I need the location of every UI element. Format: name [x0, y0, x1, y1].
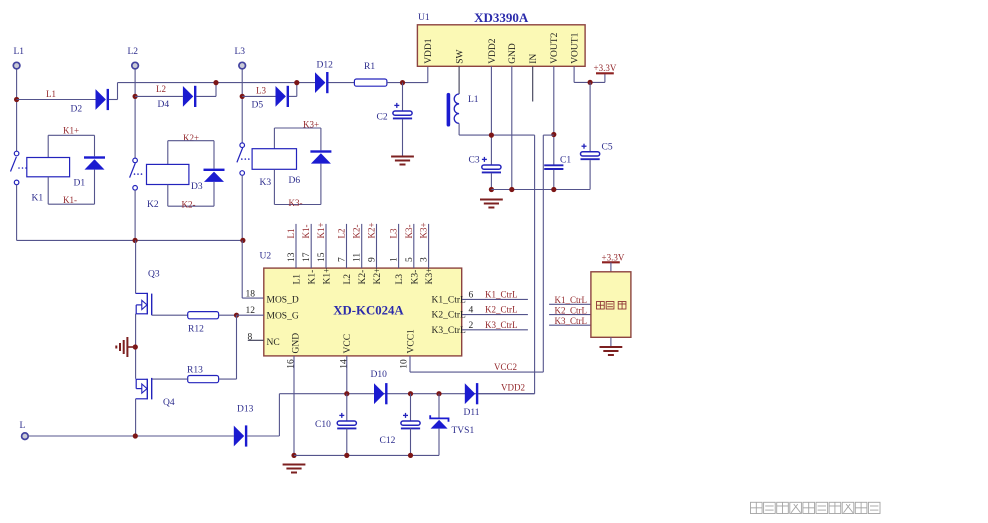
svg-text:12: 12 — [246, 306, 256, 316]
svg-text:Q4: Q4 — [163, 398, 175, 408]
svg-text:18: 18 — [246, 290, 256, 300]
junction C5 node — [588, 80, 593, 85]
svg-text:R12: R12 — [188, 325, 204, 335]
svg-text:10: 10 — [400, 359, 410, 369]
svg-text:VDD1: VDD1 — [424, 38, 434, 64]
relay contact K1 terminals — [14, 151, 19, 156]
svg-text:K3-: K3- — [404, 225, 414, 239]
terminal L — [22, 433, 29, 440]
svg-text:K3_CtrL: K3_CtrL — [555, 316, 588, 326]
wire SW stub — [458, 66, 460, 94]
wire bottom gnd rail — [294, 454, 439, 456]
relay coil K2 — [147, 164, 189, 184]
svg-text:U2: U2 — [260, 252, 272, 262]
control board box — [591, 272, 631, 338]
junction bottom rail C10 — [344, 453, 349, 458]
terminal L2 — [132, 62, 139, 69]
control board text — [597, 302, 626, 309]
junction gate node — [234, 313, 239, 318]
svg-text:R13: R13 — [187, 366, 203, 376]
svg-text:K1+: K1+ — [323, 268, 333, 285]
svg-text:2: 2 — [469, 321, 474, 331]
svg-text:U1: U1 — [418, 13, 430, 23]
wire L3 column lower — [241, 175, 243, 240]
svg-text:15: 15 — [317, 252, 327, 262]
wire control K3_CtrL — [549, 324, 591, 326]
svg-text:VDD2: VDD2 — [501, 383, 525, 393]
TVS diode TVS1 — [430, 415, 448, 428]
wire D1 anode lead — [94, 170, 96, 205]
wire pin 12 stub — [237, 314, 264, 316]
wire L2 column lower — [134, 190, 136, 240]
wire D3 anode lead — [213, 182, 215, 206]
ground below C2 — [391, 157, 414, 165]
junction VOUT2 node — [551, 132, 556, 137]
wire R13 to node — [219, 378, 237, 380]
svg-text:C5: C5 — [602, 143, 613, 153]
svg-text:VDD2: VDD2 — [488, 38, 498, 64]
svg-text:K3_CtrL: K3_CtrL — [485, 320, 518, 330]
svg-text:TVS1: TVS1 — [452, 426, 475, 436]
terminal L1 — [13, 62, 20, 69]
svg-text:L1: L1 — [468, 95, 479, 105]
svg-text:K2_CtrL: K2_CtrL — [485, 305, 518, 315]
capacitor C1 — [544, 165, 563, 169]
wire coil K1 top lead — [47, 135, 49, 157]
wire VOUT1 to power — [574, 81, 605, 83]
relay contact K3 lever — [237, 148, 243, 163]
wire D2 cathode — [109, 99, 118, 101]
svg-text:3: 3 — [420, 257, 430, 262]
svg-text:6: 6 — [469, 290, 474, 300]
wire pin 9 stub — [376, 224, 378, 268]
wire D12 to R1 — [328, 82, 354, 84]
svg-text:7: 7 — [338, 257, 348, 262]
diode D2 — [96, 89, 110, 110]
svg-text:8: 8 — [248, 333, 253, 343]
wire L1 column upper — [16, 69, 18, 151]
junction L1 node — [14, 97, 19, 102]
wire C12 bottom lead — [410, 428, 412, 455]
svg-text:K1-: K1- — [301, 225, 311, 239]
svg-text:K3_CtrL: K3_CtrL — [432, 326, 467, 336]
wire VDD2 vertical — [534, 135, 536, 394]
svg-text:17: 17 — [302, 252, 312, 262]
wire C3 bottom lead — [490, 173, 492, 190]
relay coil K1 — [27, 158, 70, 177]
wire Q4 source to L line — [135, 399, 137, 436]
wire GND pin column — [511, 66, 513, 189]
svg-text:D3: D3 — [191, 182, 203, 192]
wire relay common rail — [17, 239, 243, 241]
wire D1 cathode lead — [94, 135, 96, 156]
relay contact K3 terminals — [240, 143, 245, 148]
wire top rail — [118, 82, 316, 84]
wire K1+ top — [48, 134, 94, 136]
svg-text:L2: L2 — [156, 84, 166, 94]
svg-text:D6: D6 — [289, 176, 301, 186]
wire pin 17 stub — [310, 224, 312, 268]
svg-text:MOS_G: MOS_G — [267, 311, 299, 321]
wire D3 cathode lead — [213, 141, 215, 169]
wire power stem control — [610, 262, 612, 272]
ground left of Q3 Q4 — [116, 337, 127, 357]
svg-text:9: 9 — [368, 257, 378, 262]
wire VCC2 vertical — [542, 135, 544, 372]
svg-text:L3: L3 — [235, 47, 246, 57]
wire L3 net — [242, 95, 275, 97]
resistor R13 — [188, 376, 219, 383]
svg-text:C1: C1 — [560, 156, 571, 166]
svg-text:C12: C12 — [380, 436, 396, 446]
wire pin 3 stub — [428, 224, 430, 268]
wire power stem — [604, 74, 606, 83]
wire VDD1 stub — [427, 66, 429, 82]
svg-text:XD-KC024A: XD-KC024A — [333, 304, 404, 318]
power +3.3V — [596, 72, 614, 74]
svg-text:11: 11 — [353, 253, 363, 262]
transistor Q4 — [136, 378, 152, 400]
svg-text:NC: NC — [267, 338, 280, 348]
junction gnd bottom rail — [291, 453, 296, 458]
junction ground tap — [133, 344, 138, 349]
svg-text:K2+: K2+ — [183, 133, 199, 143]
wire pin 16 column — [293, 356, 295, 456]
svg-text:K2_CtrL: K2_CtrL — [432, 311, 467, 321]
svg-text:D11: D11 — [464, 408, 480, 418]
svg-text:L3: L3 — [256, 86, 266, 96]
svg-text:L1: L1 — [46, 89, 56, 99]
wire coil K2 bottom lead — [167, 185, 169, 207]
wire pin 11 stub — [361, 224, 363, 268]
svg-text:VCC1: VCC1 — [406, 329, 416, 354]
svg-text:K3+: K3+ — [425, 268, 435, 285]
svg-text:C2: C2 — [377, 113, 388, 123]
capacitor C12 — [401, 413, 420, 429]
op-amp U2 body — [264, 268, 462, 356]
wire VOUT2 pin column — [553, 66, 555, 165]
wire D4 cathode — [196, 95, 216, 97]
wire C10 top lead — [346, 394, 348, 421]
svg-text:Q3: Q3 — [148, 270, 160, 280]
wire pin 18 stub — [242, 297, 264, 299]
svg-text:MOS_D: MOS_D — [267, 296, 299, 306]
wire D5 cathode — [289, 95, 297, 97]
junction L2 node — [133, 94, 138, 99]
wire coil K2 top lead — [167, 141, 169, 165]
wire L2 net — [135, 95, 183, 97]
svg-text:K2+: K2+ — [373, 268, 383, 285]
wire riser D4 — [215, 83, 217, 97]
svg-text:D5: D5 — [252, 101, 264, 111]
wire L1 bottom lead — [458, 123, 460, 135]
wire K2+ top — [168, 140, 214, 142]
relay contact K1 linkage dots — [18, 167, 27, 169]
wire pin 15 stub — [325, 224, 327, 268]
power +3.3V control — [602, 261, 620, 263]
wire K3- bottom — [274, 204, 321, 206]
wire VDD2 horizontal — [459, 134, 534, 136]
ground below pin 16 — [283, 465, 306, 473]
wire pin 14 column — [346, 356, 348, 394]
svg-text:K3: K3 — [260, 178, 272, 188]
svg-text:K2-: K2- — [352, 225, 362, 239]
svg-text:L3: L3 — [389, 228, 399, 238]
wire K2- bottom — [168, 205, 214, 207]
svg-text:K1-: K1- — [63, 195, 77, 205]
svg-text:K3-: K3- — [410, 270, 420, 285]
relay contact K2 terminals — [133, 158, 138, 163]
wire L2 column upper — [134, 69, 136, 158]
wire pin 6 K1_CtrL — [462, 298, 528, 300]
wire TVS top lead — [438, 394, 440, 419]
relay contact K2 linkage dots — [134, 173, 143, 175]
svg-text:K2-: K2- — [182, 200, 196, 210]
wire L1 net — [17, 99, 96, 101]
svg-text:K1+: K1+ — [63, 126, 79, 136]
wire VOUT2 stub left — [543, 134, 554, 136]
relay contact K2 lever — [130, 163, 136, 178]
svg-text:K1: K1 — [32, 194, 44, 204]
wire VCC2 horizontal — [410, 371, 543, 373]
wire D11 to VDD2 — [478, 393, 534, 395]
wire gate node vertical — [236, 315, 238, 379]
wire C5 top lead — [589, 82, 591, 151]
capacitor C10 — [337, 413, 356, 429]
wire ground stem — [127, 346, 135, 348]
diode D13 — [234, 425, 247, 446]
wire pin 7 stub — [346, 224, 348, 268]
wire K3+ top — [274, 127, 321, 129]
svg-text:1: 1 — [390, 257, 400, 262]
svg-text:VOUT2: VOUT2 — [550, 32, 560, 63]
wire control K1_CtrL — [549, 303, 591, 305]
wire pin 10 stub — [409, 356, 411, 372]
relay coil K3 — [252, 149, 296, 170]
svg-text:+3.3V: +3.3V — [594, 63, 617, 73]
junction top rail D4 — [213, 80, 218, 85]
svg-text:IN: IN — [529, 54, 539, 64]
wire riser D5 — [296, 83, 298, 97]
relay contact K3 linkage dots — [241, 158, 250, 160]
svg-text:C3: C3 — [469, 156, 480, 166]
svg-text:L3: L3 — [395, 274, 405, 285]
svg-text:D10: D10 — [371, 370, 388, 380]
wire C10 bottom lead — [346, 428, 348, 455]
wire D6 anode lead — [320, 164, 322, 205]
svg-text:K3-: K3- — [289, 198, 303, 208]
wire L1 column lower — [16, 185, 18, 241]
svg-text:14: 14 — [339, 359, 349, 369]
junction gnd rail C1 — [551, 187, 556, 192]
svg-text:4: 4 — [469, 306, 474, 316]
svg-text:L: L — [20, 421, 26, 431]
svg-text:D12: D12 — [317, 61, 334, 71]
relay contact K1 lever — [11, 157, 17, 172]
terminal L3 — [239, 62, 246, 69]
svg-text:K2_CtrL: K2_CtrL — [555, 305, 588, 315]
wire gnd rail — [491, 189, 590, 191]
svg-text:K2-: K2- — [358, 270, 368, 285]
junction TVS node — [436, 391, 441, 396]
junction node C2 — [400, 80, 405, 85]
junction rail K3 — [240, 238, 245, 243]
wire Q3 source to Q4 drain — [135, 314, 137, 379]
svg-text:VOUT1: VOUT1 — [571, 32, 581, 63]
diode D1 — [84, 156, 105, 169]
wire R12 to node — [219, 314, 237, 316]
diode D4 — [183, 86, 197, 107]
wire R1 to VDD1 — [387, 82, 428, 84]
wire C1 bottom lead — [553, 170, 555, 190]
wire riser to top rail — [117, 83, 119, 100]
wire D13 cathode — [247, 435, 279, 437]
svg-text:VCC: VCC — [343, 334, 353, 354]
transistor Q3 — [136, 293, 152, 315]
wire coil K3 top lead — [273, 128, 275, 149]
svg-text:L2: L2 — [128, 47, 139, 57]
svg-text:R1: R1 — [364, 62, 375, 72]
svg-text:L1: L1 — [293, 274, 303, 285]
svg-text:XD3390A: XD3390A — [474, 10, 529, 25]
svg-text:GND: GND — [508, 43, 518, 64]
svg-text:D4: D4 — [158, 100, 170, 110]
junction Q4 L line — [133, 433, 138, 438]
wire VDD rail — [279, 393, 534, 395]
svg-text:L1: L1 — [14, 47, 25, 57]
capacitor C5 — [581, 144, 600, 160]
svg-text:C10: C10 — [315, 420, 331, 430]
wire Q3 drain riser — [135, 240, 137, 293]
svg-text:SW: SW — [456, 50, 466, 64]
junction top rail D5 — [294, 80, 299, 85]
title text — [751, 502, 881, 513]
wire pin 13 stub — [295, 224, 297, 268]
wire K1- bottom — [48, 203, 94, 205]
wire C12 top lead — [410, 394, 412, 421]
resistor R12 — [188, 312, 219, 319]
wire VDD2 pin column — [490, 66, 492, 165]
ground below C3 — [480, 200, 503, 208]
svg-text:K1+: K1+ — [316, 222, 326, 238]
wire Q4 gate to R13 — [152, 378, 188, 380]
wire pin 4 K2_CtrL — [462, 314, 528, 316]
resistor R1 — [354, 79, 387, 86]
junction rail K2 — [133, 238, 138, 243]
capacitor C2 — [393, 103, 412, 119]
junction VDD2 node — [489, 133, 494, 138]
svg-text:VCC2: VCC2 — [494, 362, 517, 372]
capacitor C3 — [482, 157, 501, 173]
svg-text:+3.3V: +3.3V — [602, 252, 625, 262]
svg-text:D1: D1 — [74, 179, 86, 189]
svg-text:D2: D2 — [71, 105, 83, 115]
wire coil K3 bottom lead — [273, 169, 275, 204]
wire control K2_CtrL — [549, 314, 591, 316]
junction gnd rail GND pin — [509, 187, 514, 192]
svg-text:16: 16 — [287, 359, 297, 369]
inductor L1 — [447, 93, 460, 127]
svg-text:K2: K2 — [147, 200, 159, 210]
diode D10 — [374, 383, 388, 404]
diode D6 — [310, 150, 331, 163]
diode D12 — [315, 72, 329, 93]
wire pin 2 K3_CtrL — [462, 329, 528, 331]
wire VOUT1 stub — [573, 66, 575, 82]
junction C12 node — [408, 391, 413, 396]
wire control gnd stem — [610, 337, 612, 347]
svg-text:5: 5 — [405, 257, 415, 262]
svg-text:K3+: K3+ — [419, 222, 429, 238]
wire TVS bottom lead — [438, 429, 440, 456]
junction L3 node — [240, 94, 245, 99]
svg-text:K1-: K1- — [308, 270, 318, 285]
diode D5 — [276, 86, 290, 107]
svg-text:L1: L1 — [286, 229, 296, 239]
wire L3 column upper — [241, 69, 243, 143]
wire Q3 gate to R12 — [152, 314, 188, 316]
svg-text:L2: L2 — [337, 229, 347, 239]
wire MOS_D riser — [241, 240, 243, 298]
wire pin 5 stub — [413, 224, 415, 268]
wire D6 cathode lead — [320, 128, 322, 150]
wire coil K1 bottom lead — [47, 177, 49, 204]
wire L line — [29, 435, 234, 437]
svg-text:13: 13 — [287, 252, 297, 262]
wire riser to VDD rail — [278, 394, 280, 436]
svg-text:GND: GND — [292, 333, 302, 354]
diode D11 — [465, 383, 479, 404]
diode D3 — [204, 169, 225, 182]
svg-text:L2: L2 — [343, 274, 353, 285]
svg-text:K1_CtrL: K1_CtrL — [432, 295, 467, 305]
junction gnd rail C3 — [489, 187, 494, 192]
svg-text:K2+: K2+ — [367, 222, 377, 238]
wire C2 top lead — [402, 83, 404, 111]
svg-text:D13: D13 — [237, 405, 254, 415]
junction C10 node — [344, 391, 349, 396]
svg-text:K1_CtrL: K1_CtrL — [555, 295, 588, 305]
wire pin 8 stub — [248, 339, 264, 341]
wire pin 1 stub — [398, 224, 400, 268]
svg-text:K1_CtrL: K1_CtrL — [485, 289, 518, 299]
wire C5 bottom lead — [589, 160, 591, 189]
wire C2 bottom lead — [402, 119, 404, 156]
junction bottom rail C12 — [408, 453, 413, 458]
wire IN stub — [532, 66, 534, 101]
op-amp U1 body — [417, 25, 585, 67]
ground below control board — [600, 347, 623, 355]
